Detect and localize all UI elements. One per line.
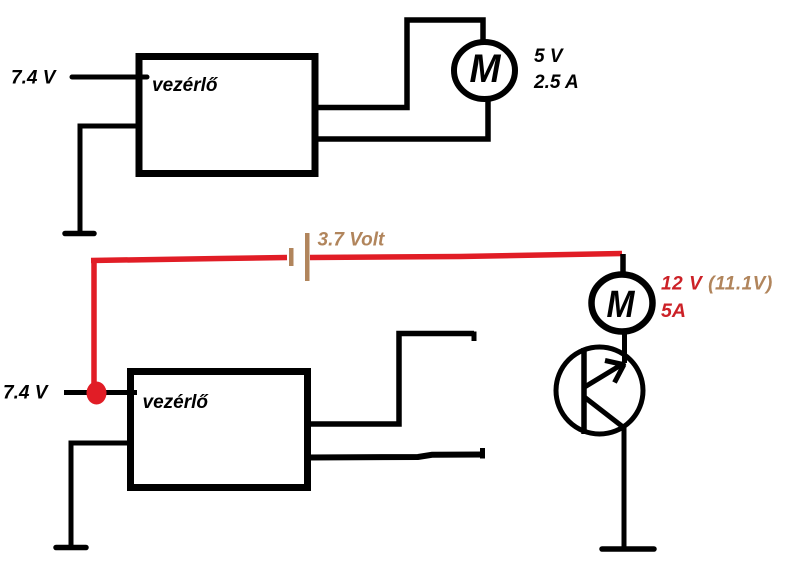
red wire vertical to junction node [91, 258, 97, 388]
ground (controller U2) [56, 545, 86, 551]
wire motor M1 return to U1 [314, 100, 488, 139]
red wire battery plus to motor M2 [310, 254, 622, 258]
svg-text:M: M [607, 284, 636, 326]
svg-text:5A: 5A [661, 300, 686, 322]
transistor Q1 body circle [556, 347, 643, 434]
output B end tick [480, 448, 485, 459]
transistor Q1 collector line [583, 363, 625, 389]
svg-text:2.5 A: 2.5 A [533, 72, 579, 93]
wire supply to controller U1 [72, 75, 147, 80]
wire transistor emitter to ground [622, 427, 627, 548]
ground (transistor emitter) [602, 546, 654, 552]
svg-text:vezérlő: vezérlő [152, 75, 219, 96]
transistor Q1 base bar [581, 348, 587, 434]
svg-text:5 V: 5 V [534, 46, 564, 67]
svg-text:3.7 Volt: 3.7 Volt [318, 230, 386, 251]
wire motor M2 to transistor collector [622, 331, 627, 363]
junction node (red dot) [87, 382, 107, 405]
battery B1 negative plate [289, 248, 294, 266]
wire red end down to motor M2 top [620, 254, 626, 275]
transistor Q1 emitter line [583, 396, 623, 427]
red wire battery minus to junction [91, 258, 287, 261]
motor M1 [454, 42, 515, 99]
controller box U1 vezérlő [139, 57, 315, 174]
ground (top circuit) [65, 231, 94, 237]
wire U2 ground leg [71, 443, 134, 548]
svg-text:vezérlő: vezérlő [143, 392, 210, 413]
battery B1 positive plate [305, 233, 310, 281]
svg-text:7.4 V: 7.4 V [11, 68, 57, 89]
svg-text:7.4 V: 7.4 V [3, 383, 49, 404]
wire U2 output B [307, 455, 484, 458]
svg-text:12 V (11.1V): 12 V (11.1V) [661, 274, 773, 295]
wire U1 output to motor M1 top [314, 20, 483, 108]
motor M2 [592, 275, 653, 332]
svg-text:M: M [470, 47, 503, 91]
output A end tick [472, 332, 477, 342]
wire U2 output A [307, 334, 474, 425]
wire supply to controller U2 [64, 390, 137, 395]
controller box U2 vezérlő [131, 372, 308, 488]
transistor Q1 collector arrowhead [605, 361, 623, 365]
wire U1 ground leg [80, 126, 141, 232]
